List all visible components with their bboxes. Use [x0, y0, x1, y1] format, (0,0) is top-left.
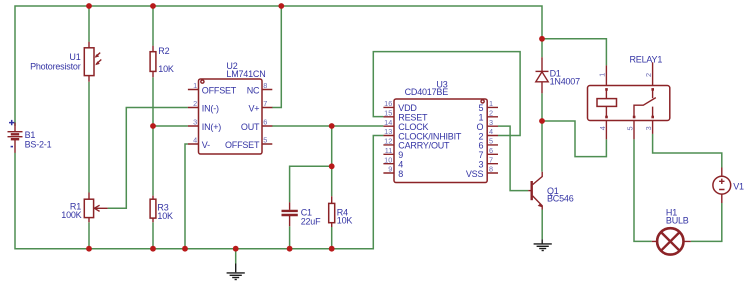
- svg-text:100K: 100K: [61, 210, 81, 220]
- svg-text:CD4017BE: CD4017BE: [405, 87, 449, 97]
- svg-text:6: 6: [263, 118, 267, 127]
- svg-text:7: 7: [489, 155, 493, 164]
- svg-text:10K: 10K: [157, 211, 173, 221]
- svg-text:7: 7: [263, 99, 267, 108]
- wire node IN+: [153, 125, 188, 127]
- svg-text:8: 8: [398, 169, 403, 179]
- relay terminals: [605, 88, 608, 91]
- wire Q0 to Q1 base: [498, 126, 528, 191]
- svg-text:R2: R2: [158, 46, 169, 56]
- node top rail / V+: [278, 3, 284, 9]
- svg-text:OUT: OUT: [241, 122, 260, 132]
- node bottom rail / R4: [329, 246, 335, 252]
- svg-text:1: 1: [193, 81, 197, 90]
- wire V1 to bulb: [691, 203, 722, 241]
- node OUT / R4: [329, 123, 335, 129]
- svg-text:8: 8: [263, 81, 267, 90]
- svg-text:Photoresistor: Photoresistor: [30, 62, 81, 72]
- svg-text:6: 6: [489, 146, 493, 155]
- ground (Q1 emitter): [534, 239, 552, 250]
- transistor Q1 BC546: [528, 172, 574, 210]
- svg-text:14: 14: [384, 118, 392, 127]
- svg-text:10: 10: [384, 155, 392, 164]
- resistor R4: [329, 196, 353, 227]
- node bottom rail / V-: [182, 246, 188, 252]
- svg-text:LM741CN: LM741CN: [226, 69, 265, 79]
- svg-text:5: 5: [625, 126, 634, 130]
- svg-text:5: 5: [489, 137, 493, 146]
- lamp H1 BULB: [652, 207, 691, 254]
- svg-text:4: 4: [489, 127, 493, 136]
- wire relay pin3 to V1: [653, 134, 722, 168]
- node D1 top / relay pin1: [539, 36, 545, 42]
- wire OUT to CLOCK: [272, 125, 383, 127]
- svg-text:1: 1: [598, 73, 607, 77]
- svg-text:16: 16: [384, 99, 392, 108]
- svg-text:13: 13: [384, 127, 392, 136]
- wire C1 bottom: [289, 226, 291, 248]
- svg-text:4: 4: [598, 126, 607, 130]
- node D1 bottom / collector / relay pin4: [539, 118, 545, 124]
- svg-text:OFFSET: OFFSET: [225, 140, 260, 150]
- wire R3 bottom: [152, 222, 154, 248]
- wire OUT branch to R4: [331, 126, 333, 196]
- svg-text:9: 9: [388, 165, 392, 174]
- svg-text:4: 4: [193, 136, 197, 145]
- wire relay pin4 to D1 node: [542, 121, 606, 157]
- svg-text:VSS: VSS: [466, 169, 484, 179]
- node bottom rail / C1: [287, 246, 293, 252]
- node top rail / U1: [86, 3, 92, 9]
- svg-text:BULB: BULB: [666, 216, 689, 226]
- photoresistor U1: [30, 42, 101, 82]
- battery B1: [8, 120, 52, 153]
- svg-text:OFFSET: OFFSET: [202, 85, 237, 95]
- wire relay pin1 branch: [542, 39, 606, 66]
- svg-text:1: 1: [489, 99, 493, 108]
- svg-text:3: 3: [489, 118, 493, 127]
- svg-text:3: 3: [193, 118, 197, 127]
- svg-text:11: 11: [385, 146, 393, 155]
- svg-text:U1: U1: [69, 52, 80, 62]
- svg-text:12: 12: [384, 137, 392, 146]
- wire V- to bottom rail: [185, 144, 188, 249]
- wire D1 to Q1 collector: [541, 93, 543, 172]
- wire R4 bottom: [331, 227, 333, 249]
- wire R1 bottom: [88, 222, 90, 248]
- source V1: [713, 168, 744, 204]
- svg-text:CARRY/OUT: CARRY/OUT: [398, 141, 450, 151]
- svg-text:RELAY1: RELAY1: [630, 54, 663, 64]
- capacitor C1: [282, 202, 322, 226]
- svg-text:V+: V+: [248, 103, 259, 113]
- node bottom rail / R1: [86, 246, 92, 252]
- svg-text:NC: NC: [247, 85, 260, 95]
- wire ground stub: [235, 249, 237, 264]
- svg-text:BC546: BC546: [547, 194, 574, 204]
- svg-text:10K: 10K: [337, 216, 353, 226]
- wire R2 to R3: [152, 77, 154, 195]
- svg-text:5: 5: [263, 136, 267, 145]
- node bottom rail / ground: [233, 246, 239, 252]
- svg-text:2: 2: [644, 73, 653, 77]
- svg-text:B1: B1: [25, 130, 36, 140]
- svg-text:8: 8: [489, 165, 493, 174]
- node top rail / R2: [150, 3, 156, 9]
- svg-text:V1: V1: [733, 182, 744, 192]
- relay coil: [597, 99, 617, 107]
- wire relay pin5 to bulb: [634, 139, 652, 241]
- node C1 / R4: [329, 163, 335, 169]
- svg-text:2: 2: [193, 99, 197, 108]
- svg-text:2: 2: [489, 108, 493, 117]
- wire bottom rail (left rail to CLOCK/INHIBIT riser): [15, 136, 383, 249]
- wire top rail / left rail / down to D1: [15, 6, 542, 126]
- wire Q1 emitter down: [541, 210, 543, 240]
- svg-text:10K: 10K: [158, 64, 174, 74]
- wire V+ to top rail: [272, 6, 281, 108]
- svg-text:1N4007: 1N4007: [550, 76, 581, 86]
- wire U1 top: [88, 6, 90, 42]
- op-amp U2 LM741CN: [188, 61, 272, 154]
- wire RESET to Q2 loop: [373, 52, 520, 136]
- diode D1 1N4007: [536, 57, 581, 93]
- resistor R3: [150, 196, 173, 223]
- counter U3 CD4017BE: [383, 80, 498, 183]
- svg-text:IN(+): IN(+): [202, 122, 221, 132]
- potentiometer R1: [61, 193, 107, 223]
- relay RELAY1: [588, 54, 670, 139]
- node bottom rail / R3: [150, 246, 156, 252]
- ground (bottom rail): [227, 264, 245, 280]
- svg-text:V-: V-: [202, 140, 210, 150]
- svg-text:IN(-): IN(-): [202, 103, 219, 113]
- resistor R2: [150, 46, 174, 78]
- svg-text:15: 15: [384, 108, 392, 117]
- wire IN- to R1 wiper: [108, 108, 188, 209]
- node IN+ / R2 / R3: [150, 123, 156, 129]
- svg-text:22uF: 22uF: [301, 217, 321, 227]
- wire R2 top: [152, 6, 154, 46]
- wire C1 top branch: [290, 166, 332, 202]
- wire U1 to R1: [88, 82, 90, 193]
- svg-text:3: 3: [644, 126, 653, 130]
- relay switch: [634, 89, 656, 117]
- svg-text:BS-2-1: BS-2-1: [25, 139, 52, 149]
